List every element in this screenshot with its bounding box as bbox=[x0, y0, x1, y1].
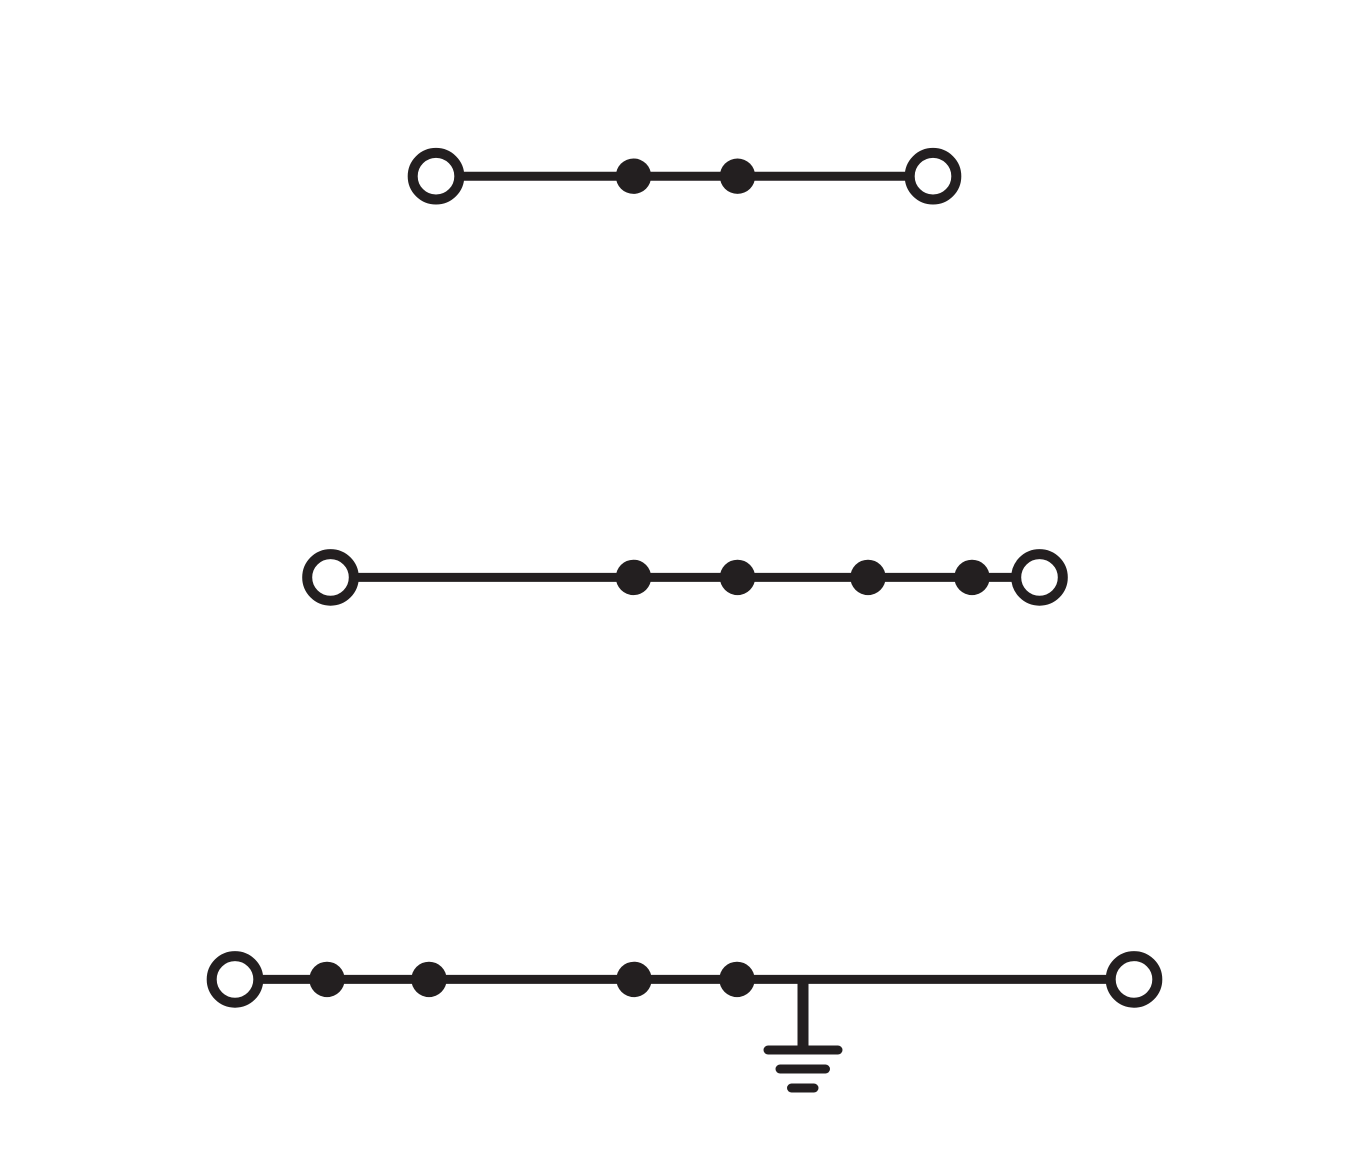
terminal circle: top rail right clamp bbox=[910, 153, 957, 200]
terminal circle: top rail left clamp bbox=[413, 153, 460, 200]
terminal circle: bottom rail right clamp bbox=[1111, 956, 1158, 1003]
junction dot: middle rail, 3rd bbox=[850, 560, 885, 595]
terminal circle: middle rail right clamp bbox=[1016, 554, 1063, 601]
ground symbol bar 1 (top, widest) bbox=[768, 1046, 838, 1055]
terminal circle: middle rail left clamp bbox=[307, 554, 354, 601]
terminal circle: bottom rail left clamp bbox=[212, 956, 259, 1003]
junction dot: bottom rail, 4th bbox=[719, 962, 754, 997]
junction dot: middle rail, 1st bbox=[616, 560, 651, 595]
wire: top rail (level 1 bus) bbox=[436, 172, 933, 181]
ground symbol bar 2 (middle) bbox=[780, 1065, 826, 1074]
wire: ground stem from bottom rail junction bbox=[798, 979, 809, 1050]
ground symbol bar 3 (bottom, narrowest) bbox=[792, 1084, 815, 1093]
wire: middle rail (level 2 bus) bbox=[330, 573, 1040, 582]
junction dot: bottom rail, 2nd bbox=[411, 962, 446, 997]
junction dot: bottom rail, 1st bbox=[309, 962, 344, 997]
junction dot: top rail, left bbox=[616, 159, 651, 194]
wire: bottom rail (level 3 / PE bus) bbox=[235, 975, 1134, 984]
junction dot: middle rail, 4th bbox=[954, 560, 989, 595]
junction dot: middle rail, 2nd bbox=[720, 560, 755, 595]
junction dot: bottom rail, 3rd bbox=[616, 962, 651, 997]
junction dot: top rail, right bbox=[720, 159, 755, 194]
